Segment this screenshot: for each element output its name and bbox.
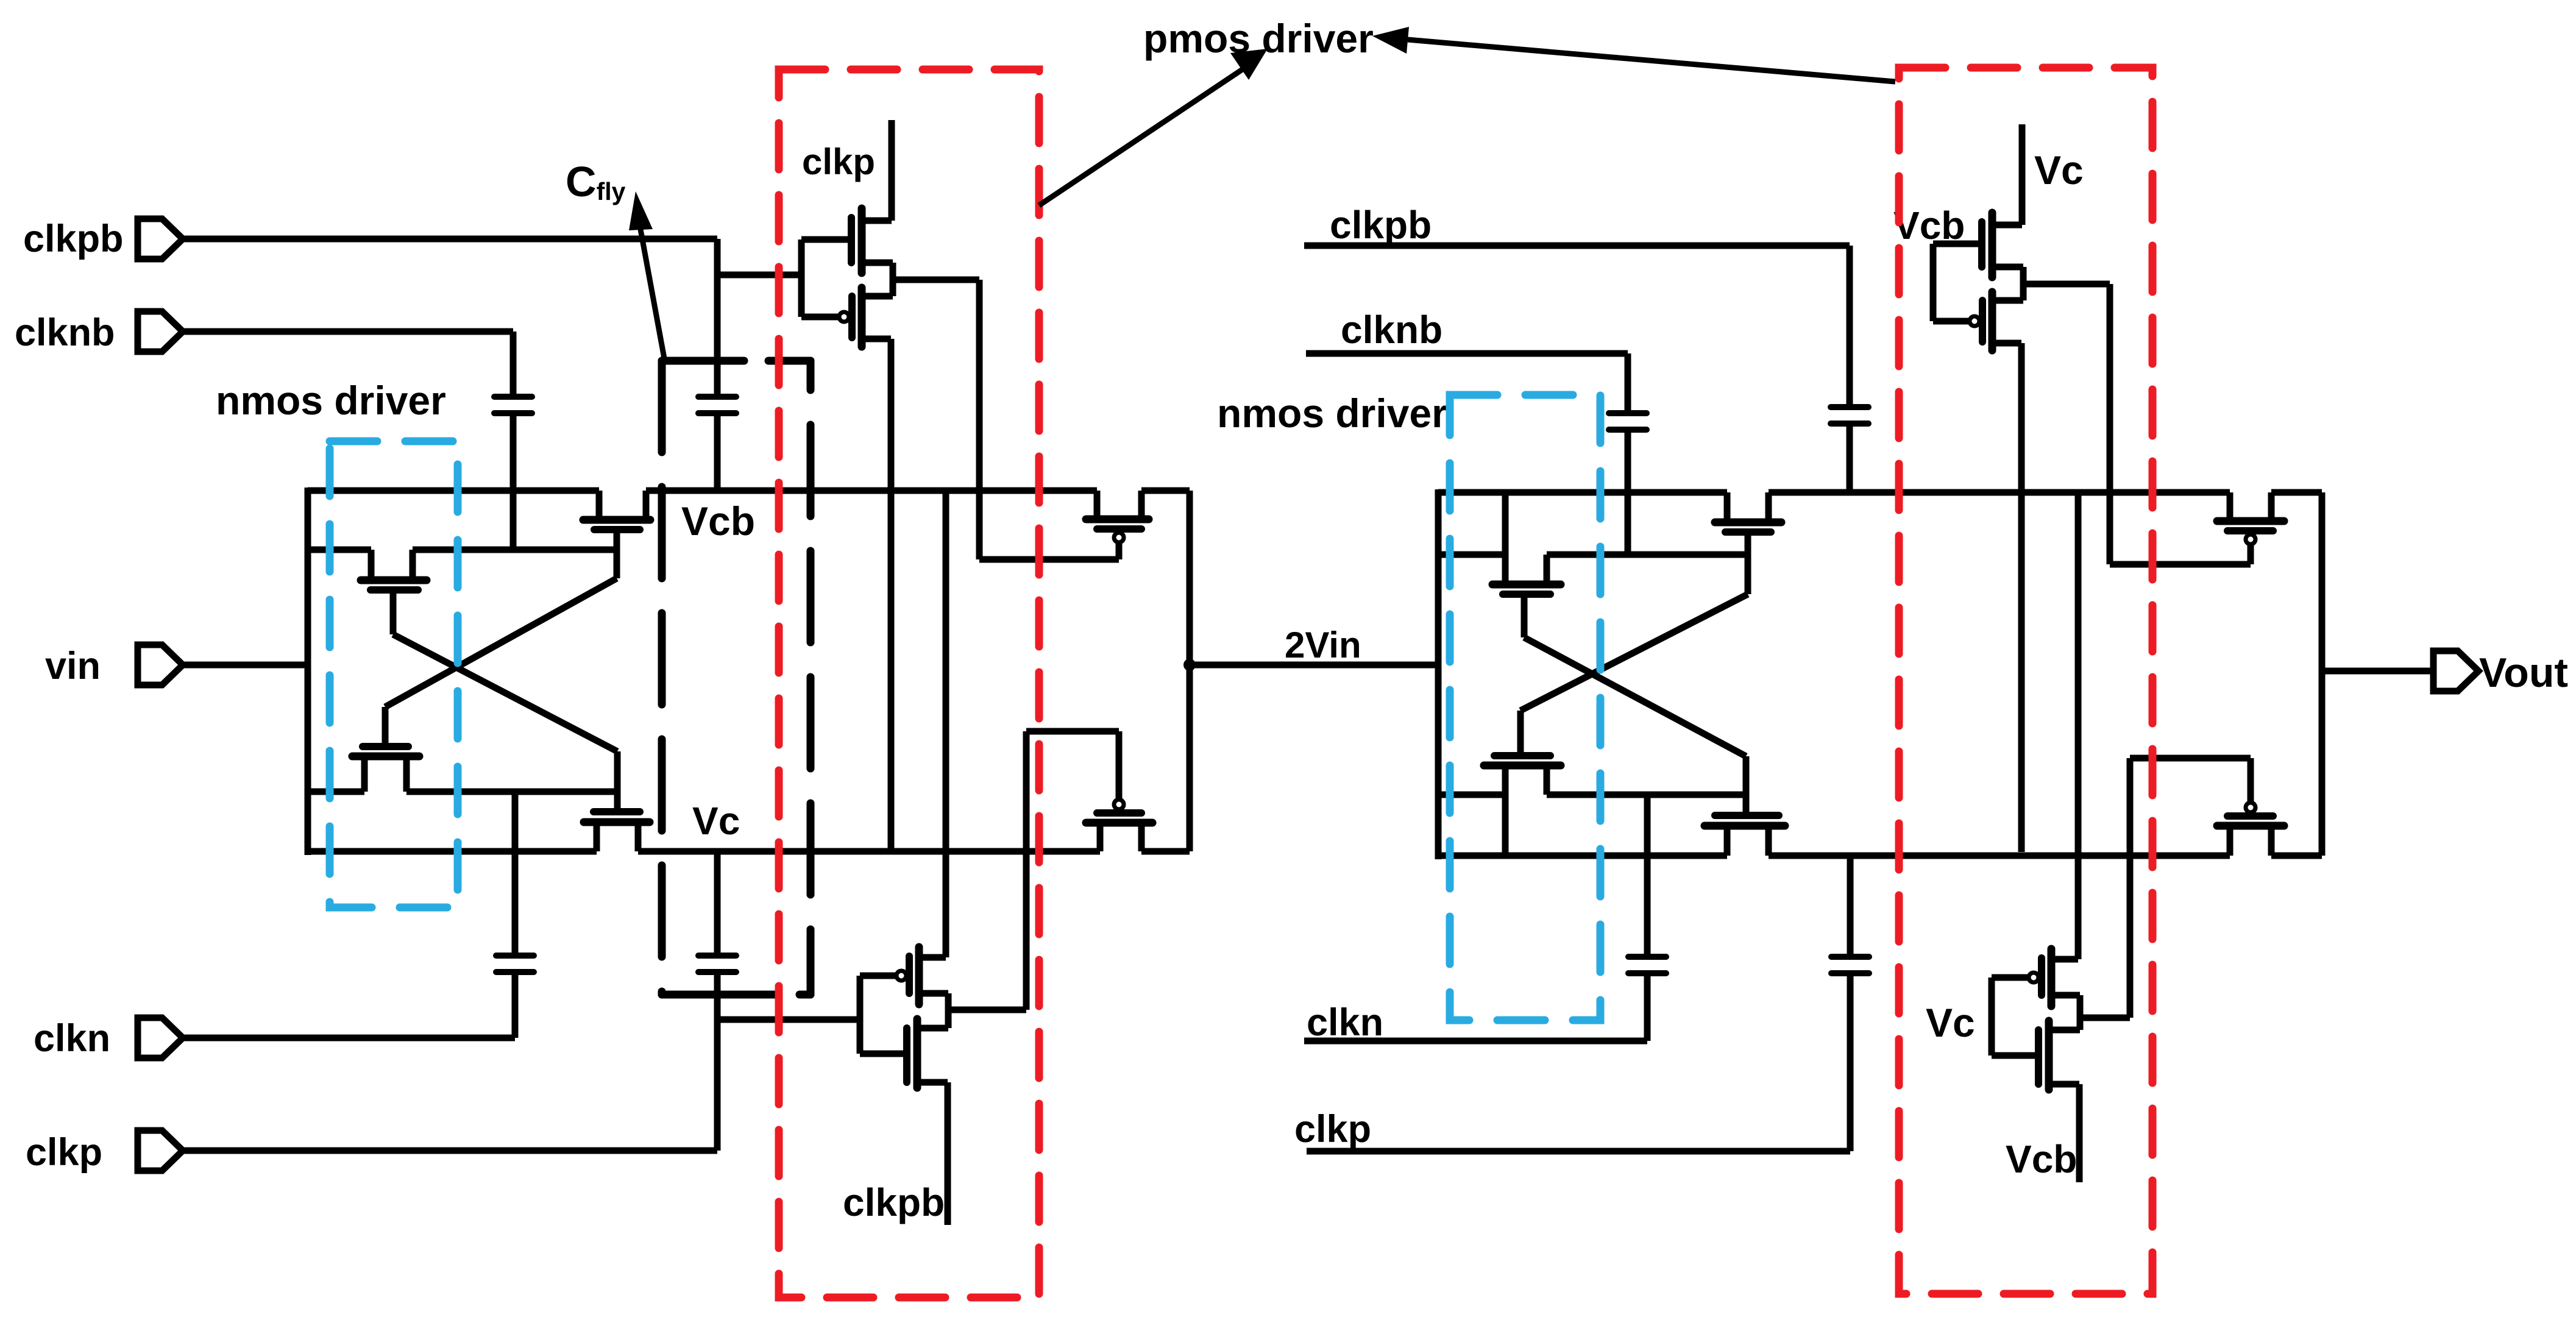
svg-text:vin: vin (45, 645, 101, 687)
wire clkp right cap top (1847, 856, 1854, 954)
transistor M1 upper-left nmos (361, 550, 427, 634)
transistor P1 clkp-driver pmos (801, 263, 893, 347)
wire clkpb cap to Vcb rail (714, 416, 721, 491)
box pmos driver left (red dashed) (779, 69, 1039, 1297)
Vcb rail segment 2 (646, 488, 1097, 494)
wire clkn right cap bottom (1644, 976, 1651, 1041)
wire P4R gate feed vertical (2127, 758, 2134, 1018)
box pmos driver right (red dashed) (1899, 68, 2152, 1294)
right Vc rail segment 3 (2271, 853, 2322, 859)
wire clknb right line (1306, 350, 1628, 357)
svg-text:Vout: Vout (2479, 650, 2568, 696)
wire clkp pair gate rail (798, 240, 805, 317)
wire clknb right down (1625, 353, 1631, 410)
wire clkp right line (1307, 1148, 1850, 1155)
wire clkn cap to inner rail (512, 792, 519, 953)
wire P3 gate feed (979, 556, 1119, 563)
wire clkp right cap bottom (1847, 976, 1854, 1151)
port clkpb (138, 219, 183, 259)
wire clkn right cap top (1644, 793, 1651, 954)
left block left rail (305, 488, 311, 855)
svg-text:clknb: clknb (15, 311, 115, 354)
capacitor clknb (top plate pair) (494, 397, 532, 413)
wire 2Vin (1190, 662, 1438, 669)
transistor M1R upper-left nmos right (1492, 492, 1561, 637)
capacitor clkp (bottom) (698, 956, 736, 972)
transistor P4 bottom pass pmos (1086, 731, 1152, 851)
transistor P5 Vc-driver pmos right (1933, 267, 2023, 350)
right Vcb rail segment 3 (2271, 489, 2322, 496)
svg-text:clkpb: clkpb (843, 1180, 945, 1224)
wire node to P3 gate (976, 280, 983, 559)
svg-text:Vc: Vc (692, 799, 740, 843)
wire Vc pair node branch (2023, 281, 2110, 288)
wire vin (183, 662, 308, 669)
port Vout (2433, 651, 2478, 691)
transistor N1 clkp-driver nmos (801, 120, 893, 273)
transistor T4R lower-right nmos right (1705, 756, 1785, 856)
inner bottom rail segment 1 (308, 789, 364, 795)
transistor P6 bottom Vc-driver pmos right (1992, 492, 2080, 1006)
right Vc rail segment 2 (1769, 853, 2230, 859)
inner top rail segment 2 (413, 547, 617, 553)
wire clkp cap to Vc rail (714, 851, 721, 953)
transistor P2 clkpb-driver pmos (860, 491, 948, 1004)
right Vcb rail segment 2 (1769, 489, 2230, 496)
svg-text:Vc: Vc (1926, 1000, 1975, 1045)
transistor N4 bottom Vcb nmos right (1992, 995, 2080, 1090)
wire clknb cap to inner rail (510, 416, 517, 550)
node 2Vin junction (1183, 659, 1196, 671)
wire clkpb right line (1304, 243, 1850, 249)
wire cross diagonal D2 (393, 634, 617, 751)
box nmos driver left (blue dashed) (330, 441, 458, 907)
wire clkpb vertical to cap (714, 239, 721, 394)
wire cross diagonal D1R (1520, 594, 1748, 711)
wire clknb right cap to inner rail (1625, 433, 1631, 553)
wire clknb vertical to cap (510, 332, 517, 394)
svg-text:clknb: clknb (1341, 308, 1442, 352)
capacitor clkpb (698, 397, 736, 413)
wire clkpb horizontal (183, 236, 717, 243)
transistor P4R bottom pass pmos right (2217, 758, 2284, 856)
transistor M4 lower-right nmos (584, 751, 650, 851)
Vc rail segment 1 (308, 848, 597, 855)
transistor M2 upper-right nmos (583, 491, 650, 578)
wire cross diagonal D1 (385, 578, 617, 707)
wire clkp horizontal (183, 1148, 717, 1154)
svg-text:clkp: clkp (26, 1131, 102, 1174)
capacitor clkpb right (1831, 407, 1868, 424)
Vc rail segment 2 (638, 848, 1100, 855)
box nmos driver right (blue dashed) (1450, 395, 1600, 1020)
wire P1 source to Vc rail (888, 339, 895, 851)
svg-text:Vcb: Vcb (681, 499, 755, 544)
capacitor clkn right (1628, 957, 1666, 973)
wire bottom pair node branch right (2080, 1015, 2130, 1021)
wire clkpb pair node branch (948, 1007, 1026, 1013)
capacitor clkn (bottom) (496, 956, 534, 972)
capacitor clkp right (1831, 957, 1869, 973)
arrow Cfly (629, 191, 664, 358)
transistor T2R upper-right nmos right (1715, 492, 1781, 594)
box Cfly (black dashed) (662, 361, 811, 995)
wire clkp vertical to cap (714, 974, 721, 1151)
wire clkpb stem (945, 1082, 951, 1225)
svg-text:clkn: clkn (1307, 1001, 1383, 1044)
right block left rail (1435, 489, 1442, 859)
svg-text:2Vin: 2Vin (1285, 625, 1361, 665)
wire P4 gate feed vertical (1023, 731, 1030, 1010)
wire clkpb right down (1847, 246, 1853, 405)
wire clkpb gate branch (717, 272, 801, 279)
transistor P3R top pass pmos right (2217, 492, 2284, 564)
right inner top rail (1438, 552, 1505, 558)
inner top rail segment 1 (308, 547, 371, 553)
Vcb rail segment 3 (1141, 488, 1190, 494)
arrow pmos-driver left (1039, 49, 1268, 205)
transistor N2 clkpb-driver nmos (860, 993, 948, 1088)
wire node to P3R gate (2107, 284, 2113, 564)
wire Vout (2322, 668, 2435, 675)
right inner bottom rail (1438, 792, 1505, 798)
transistor M3R lower-left nmos right (1484, 711, 1561, 856)
wire clkn vertical to cap (512, 974, 519, 1038)
svg-text:nmos driver: nmos driver (1217, 391, 1447, 436)
right Vc rail segment 1 (1438, 853, 1727, 859)
wire cross diagonal D2R (1524, 637, 1746, 756)
wire clkpb right cap to rail (1847, 427, 1853, 492)
capacitor clknb right (1609, 413, 1647, 430)
wire bottom pair gate rail right (1989, 978, 1995, 1056)
wire P4R gate feed (2130, 755, 2251, 762)
wire Vout corner vertical (2319, 492, 2326, 856)
wire P3R gate feed (2110, 561, 2251, 568)
wire clkpb pair gate rail (857, 976, 864, 1054)
arrow pmos-driver right (1372, 27, 1895, 82)
port clknb (138, 311, 183, 352)
wire clkp gate branch (717, 1017, 857, 1023)
wire clknb horizontal (183, 328, 513, 335)
Vc rail segment 3 (1141, 848, 1190, 855)
svg-text:Vcb: Vcb (1893, 204, 1965, 247)
wire clkn horizontal (183, 1035, 515, 1041)
svg-text:clkp: clkp (802, 141, 875, 182)
port clkn (138, 1018, 183, 1058)
transistor N3 Vc-driver nmos right (1933, 124, 2023, 277)
port clkp (138, 1130, 183, 1171)
wire P5 source to Vcb rail (2018, 343, 2025, 852)
transistor M3 lower-left nmos (352, 707, 419, 792)
svg-text:nmos driver: nmos driver (216, 378, 446, 423)
right Vcb rail segment 1 (1438, 489, 1727, 496)
Vcb rail segment 1 (308, 488, 599, 494)
wire Vcb stem right (2076, 1084, 2083, 1182)
svg-text:clkn: clkn (34, 1017, 110, 1060)
wire P4 gate feed (1026, 728, 1119, 735)
svg-text:clkpb: clkpb (1330, 203, 1432, 247)
wire clkn right line (1304, 1038, 1647, 1045)
transistor P3 top pass pmos (1086, 491, 1149, 559)
svg-text:clkpb: clkpb (23, 218, 124, 260)
wire Vc pair gate rail (1930, 244, 1937, 321)
wire clkp pair node branch (893, 277, 979, 283)
port vin (138, 645, 183, 685)
inner bottom rail segment 2 (406, 789, 619, 795)
svg-text:Vc: Vc (2034, 147, 2084, 193)
wire Vcb rail corner to 2Vin (1187, 491, 1193, 851)
svg-text:Vcb: Vcb (2006, 1137, 2077, 1181)
svg-text:clkp: clkp (1294, 1108, 1371, 1151)
